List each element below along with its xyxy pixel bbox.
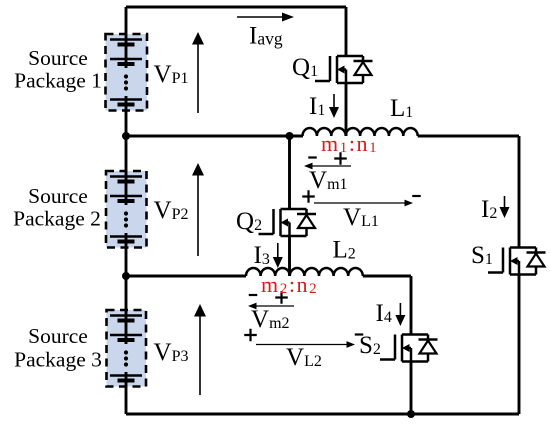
svg-text:Source: Source — [28, 324, 88, 348]
svg-text:I2: I2 — [481, 196, 497, 223]
svg-text:I4: I4 — [376, 300, 392, 327]
svg-text:VP1: VP1 — [154, 61, 189, 88]
svg-text:Q2: Q2 — [236, 208, 262, 235]
svg-text:VP2: VP2 — [154, 197, 189, 224]
svg-text:S2: S2 — [359, 332, 381, 359]
svg-text:I1: I1 — [309, 93, 325, 120]
svg-text:Package 3: Package 3 — [14, 348, 102, 372]
svg-text:VL1: VL1 — [343, 204, 379, 231]
svg-text:VP3: VP3 — [154, 339, 189, 366]
svg-text:I3: I3 — [254, 242, 270, 269]
svg-text:VL2: VL2 — [286, 344, 322, 371]
svg-text:Vm1: Vm1 — [309, 167, 348, 194]
svg-text:L2: L2 — [333, 237, 356, 264]
svg-text:Source: Source — [28, 184, 88, 208]
svg-text:S1: S1 — [471, 242, 493, 269]
svg-text:Source: Source — [28, 46, 88, 70]
svg-text:m1:n1: m1:n1 — [321, 131, 378, 156]
svg-text:L1: L1 — [390, 95, 413, 122]
svg-text:Vm2: Vm2 — [251, 306, 290, 333]
svg-text:m2:n2: m2:n2 — [261, 272, 318, 297]
svg-text:Package 2: Package 2 — [13, 207, 101, 231]
svg-text:Iavg: Iavg — [249, 23, 283, 50]
svg-text:Q1: Q1 — [292, 54, 318, 81]
svg-text:Package 1: Package 1 — [14, 69, 102, 93]
